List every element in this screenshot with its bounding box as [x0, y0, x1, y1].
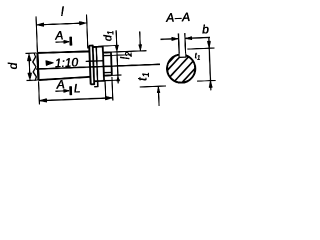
dimension L: extension lines	[38, 81, 41, 104]
svg-text:t1: t1	[135, 72, 151, 81]
dimension d: extension lines	[25, 52, 36, 54]
thread minor top	[103, 54, 111, 56]
dimension d1 line (vertical, outside arrows)	[116, 30, 118, 83]
svg-text:A: A	[55, 77, 65, 91]
svg-text:A–A: A–A	[165, 10, 191, 25]
thread minor bottom	[104, 71, 112, 73]
nut corner line	[93, 47, 98, 87]
dimension b line	[161, 38, 179, 41]
dim arrow down (l2)	[139, 31, 142, 50]
dimension L line	[39, 98, 112, 101]
dimension l: extension lines	[36, 16, 37, 52]
extension line (lower right)	[140, 85, 166, 88]
extension line (thread top, long)	[103, 51, 146, 53]
svg-text:t1: t1	[195, 51, 201, 62]
dimension t1 (section): extension lines	[187, 48, 214, 49]
cone top edge	[37, 51, 89, 53]
svg-text:1:10: 1:10	[55, 55, 79, 70]
keyway slot	[179, 53, 186, 57]
thread minor extension	[111, 54, 130, 57]
washer top extension	[98, 44, 118, 47]
section circle	[167, 54, 196, 83]
section arrow A top	[70, 37, 73, 45]
nut face extension	[104, 81, 107, 98]
dimension l: line with arrows	[36, 23, 86, 25]
svg-text:d: d	[6, 62, 20, 70]
nut bottom extension	[104, 79, 120, 82]
centerline / axis	[36, 64, 160, 69]
svg-text:L: L	[74, 81, 81, 95]
dimension d line	[29, 53, 30, 80]
thread major bottom	[104, 74, 112, 76]
thread major top	[103, 51, 111, 53]
shaft end face	[110, 52, 113, 75]
keyway bottom line on cone	[86, 60, 103, 63]
svg-text:l: l	[61, 5, 66, 19]
t1 dim line with outside arrows	[209, 37, 211, 90]
nut	[93, 47, 104, 82]
dim arrow up (t1)	[157, 86, 160, 105]
svg-text:A: A	[54, 28, 64, 42]
washer	[89, 46, 94, 85]
cone bottom edge	[38, 77, 90, 80]
section arrow A bottom	[69, 86, 72, 94]
taper symbol	[46, 60, 54, 66]
break line (left shaft end)	[32, 53, 36, 81]
hatching	[156, 45, 213, 104]
d1 extension bottom	[112, 74, 121, 76]
svg-text:d1: d1	[102, 30, 116, 41]
shaft left end face	[37, 53, 38, 80]
svg-text:b: b	[202, 22, 210, 36]
svg-text:l2: l2	[118, 52, 134, 60]
cone end face	[89, 46, 90, 85]
